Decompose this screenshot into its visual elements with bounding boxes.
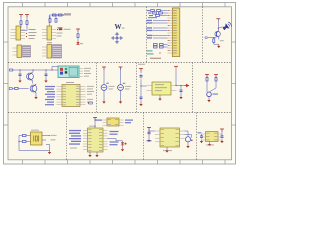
regulator U2 left pins xyxy=(147,86,153,91)
oscillator X1 body xyxy=(107,118,119,126)
wire xyxy=(77,37,79,42)
net label text xyxy=(147,50,161,59)
resistor R4 xyxy=(77,34,79,38)
wire xyxy=(148,130,155,131)
connector J3 body xyxy=(17,45,22,58)
capacitor C11 xyxy=(19,141,31,143)
sheet outer border xyxy=(4,3,236,165)
svg-text:W: W xyxy=(115,23,122,31)
transistor Q3 xyxy=(30,84,37,96)
resistor RN2 xyxy=(148,12,168,14)
ground GND17 xyxy=(165,147,168,153)
wire xyxy=(120,67,122,84)
sheet inner border xyxy=(8,7,232,160)
IC U1 left pins xyxy=(45,86,62,105)
capacitor C4 xyxy=(45,70,48,79)
section label text xyxy=(148,17,157,18)
wire xyxy=(208,37,216,38)
net flag input xyxy=(205,37,208,38)
ground GND9 xyxy=(158,95,161,101)
crystal label xyxy=(31,129,39,132)
IC U5 right pins xyxy=(218,134,222,140)
resistor R8 xyxy=(210,75,218,92)
connector P1 inner pin marks xyxy=(173,11,177,54)
resistor RN3 xyxy=(149,15,168,17)
crystal right pins xyxy=(42,135,57,140)
power flag VCC12 xyxy=(147,128,151,131)
connector J1 body xyxy=(16,26,21,40)
resistor RN1 xyxy=(147,10,168,12)
ground GND18 xyxy=(200,140,203,144)
net port VIN xyxy=(10,69,13,71)
IC U4 right pins xyxy=(180,131,185,138)
regulator U2 body xyxy=(152,82,171,95)
LED D1 xyxy=(76,42,83,45)
IC U5 label xyxy=(206,144,214,147)
power flag VCC11 xyxy=(93,118,97,121)
IC U5 body xyxy=(206,132,219,142)
wire xyxy=(116,139,123,141)
ground GND14 xyxy=(95,152,98,157)
net label text xyxy=(198,132,202,133)
capacitor C2 xyxy=(55,16,57,22)
oscillator X1 pins xyxy=(95,120,134,126)
IC U3 right pins xyxy=(103,131,108,150)
ground GND4 xyxy=(34,96,37,100)
transistor Q1 xyxy=(215,31,220,40)
power flag VCC13 xyxy=(220,129,224,132)
capacitor C12 xyxy=(148,131,151,139)
connector J3 left pin xyxy=(13,48,18,55)
sheet background xyxy=(8,7,232,160)
ground GND3 xyxy=(44,79,47,83)
power flag VCC5 xyxy=(102,67,106,70)
wire xyxy=(140,69,146,87)
ground GND11 xyxy=(48,151,51,155)
connector J2 right pins xyxy=(52,29,59,39)
section divider lines xyxy=(8,7,232,160)
power flag VCC3 xyxy=(76,29,80,32)
wire xyxy=(185,131,192,138)
USB connector CN1 body xyxy=(58,66,79,78)
resistor R6 xyxy=(9,88,28,90)
power flag VCC7 xyxy=(139,69,143,72)
capacitor C13 polarized xyxy=(185,137,192,145)
resistor R3 xyxy=(58,14,62,16)
ground GND8 xyxy=(179,96,182,100)
ground GND1 xyxy=(217,40,224,48)
IC U4 label xyxy=(163,149,172,152)
connector J4 pin block xyxy=(53,45,62,59)
IC U1 label xyxy=(66,82,74,83)
resistor R2 xyxy=(52,14,56,16)
sheet margin strip xyxy=(3,2,236,165)
IC U1 body xyxy=(62,85,80,107)
ground GND10 xyxy=(207,97,210,103)
connector J4 body xyxy=(47,45,52,59)
capacitor C7 xyxy=(140,74,143,78)
wire xyxy=(103,67,105,84)
ground GND2 xyxy=(18,79,21,83)
capacitor C8 xyxy=(140,86,143,103)
ground GND7 xyxy=(139,103,142,107)
junction dots xyxy=(57,14,64,15)
speaker LS1 xyxy=(218,21,232,31)
net stub xyxy=(88,102,93,104)
ground GND6 xyxy=(119,100,122,104)
LED D2 xyxy=(121,141,127,148)
IC U4 left pins xyxy=(147,131,161,142)
wire xyxy=(148,128,150,132)
resistor R5 xyxy=(213,38,219,45)
connector J2 body xyxy=(47,26,52,40)
capacitor C1 xyxy=(49,16,51,22)
power port VOUT arrow xyxy=(185,84,190,87)
power flag VCC9 xyxy=(205,75,209,78)
wire xyxy=(20,15,22,21)
power flag VCC2 xyxy=(25,15,29,18)
border zone ticks xyxy=(4,3,237,165)
ground GND5 xyxy=(102,100,105,104)
power flag VCC10 xyxy=(214,75,218,78)
ground GND19 xyxy=(220,140,223,144)
sheet title text W xyxy=(115,23,125,31)
connector J1 left pins xyxy=(11,30,17,39)
ground GND20 xyxy=(208,142,211,147)
ferrite bead FB1 xyxy=(20,21,22,25)
wire xyxy=(49,15,71,26)
capacitor C10 xyxy=(19,135,31,137)
transistor Q2 xyxy=(27,70,34,84)
ferrite bead FB2 xyxy=(26,21,28,25)
wire xyxy=(218,19,219,31)
USB connector right pins xyxy=(79,68,91,77)
connector J3 pin block xyxy=(23,46,31,58)
section label text xyxy=(138,63,145,66)
wire xyxy=(221,129,223,135)
connector P1 left pins xyxy=(167,10,172,53)
connector J2 pin labels xyxy=(57,27,71,36)
wire xyxy=(21,24,28,30)
power flag VCC8 xyxy=(174,67,178,86)
resistor RN5 xyxy=(154,46,168,48)
IC U3 left pins xyxy=(83,131,88,150)
net tie node xyxy=(207,92,218,97)
capacitor C9 xyxy=(180,86,183,96)
capacitor C15 xyxy=(221,135,224,139)
IC U3 right net labels xyxy=(108,131,119,145)
section label xyxy=(70,147,77,150)
power flag VCC4 xyxy=(216,19,220,22)
power flag VCC1 xyxy=(19,15,23,18)
connector J4 left pins xyxy=(42,47,47,56)
power flag VCC6 xyxy=(119,67,123,70)
capacitor C6 polarized xyxy=(118,83,131,100)
connector J1 right pins xyxy=(21,30,28,39)
IC U4 body xyxy=(160,128,180,147)
net label text xyxy=(64,13,71,14)
wire xyxy=(175,85,186,86)
wire xyxy=(94,118,95,129)
IC U1 right pins xyxy=(80,86,94,105)
connector P1 body xyxy=(172,8,180,57)
ground GND13 xyxy=(88,152,91,157)
wire gnd loop xyxy=(18,136,49,151)
IC U5 left pins xyxy=(202,134,206,140)
capacitor C16 xyxy=(200,134,203,139)
wire xyxy=(77,29,79,34)
wire xyxy=(20,24,23,28)
capacitor C3 xyxy=(19,70,22,79)
resistor RN4 xyxy=(154,44,168,46)
ground GND15 xyxy=(147,139,150,143)
regulator U2 right pins xyxy=(171,86,177,91)
ground GND16 xyxy=(186,145,189,149)
connector J4 top marks xyxy=(47,41,52,44)
crystal Y1 body xyxy=(31,132,43,145)
IC U3 body xyxy=(88,126,104,152)
resistor R7 xyxy=(206,75,208,93)
move cursor icon xyxy=(112,33,123,44)
wire xyxy=(26,15,28,21)
ground GND12 xyxy=(121,148,124,152)
wire xyxy=(52,67,58,71)
connector J1 pin labels xyxy=(29,29,37,39)
wire main rail xyxy=(13,69,58,70)
IC U3 left net labels xyxy=(69,130,81,145)
connector J2 left pins xyxy=(42,30,47,39)
capacitor C5 polarized xyxy=(101,83,114,100)
wire rows with net labels xyxy=(147,20,168,39)
